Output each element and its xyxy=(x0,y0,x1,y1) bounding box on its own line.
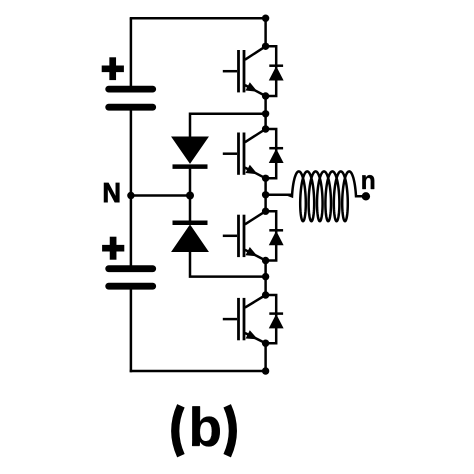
transistor Q3 (IGBT) xyxy=(223,211,266,260)
terminal node n (dot) xyxy=(362,192,370,200)
wire: clamp branch top (to upper midpoint) xyxy=(190,114,266,138)
node n label xyxy=(362,175,374,189)
junction: Q2 emitter xyxy=(262,175,269,182)
wire: bottom rail xyxy=(130,370,266,373)
junction: Q3 emitter xyxy=(262,257,269,264)
diode D1 (freewheel of Q1) xyxy=(266,46,284,96)
junction: top rail / string xyxy=(262,15,269,22)
junction: lower midpoint xyxy=(262,273,269,280)
caption (b) xyxy=(175,406,233,456)
wire: top rail xyxy=(130,17,266,20)
wire: left rail middle segment xyxy=(130,107,133,269)
junction: Q1 emitter xyxy=(262,92,269,99)
plus polarity mark of C1 xyxy=(102,57,124,80)
diode D4 (freewheel of Q4) xyxy=(266,295,284,343)
diode D2 (freewheel of Q2) xyxy=(266,129,284,178)
diode D6 (lower clamp) xyxy=(172,223,208,252)
junction: Q4 collector xyxy=(262,291,269,298)
junction: Q1 collector xyxy=(262,43,269,50)
junction: Q4 emitter xyxy=(262,340,269,347)
plus polarity mark of C2 xyxy=(102,237,124,260)
wire: N to clamp branch xyxy=(131,194,190,197)
wire: string segment bottom xyxy=(264,343,267,371)
junction: upper midpoint xyxy=(262,110,269,117)
wire: left rail lower segment xyxy=(130,286,133,372)
capacitor C1 (upper DC-link) xyxy=(109,89,153,107)
junction: Q2 collector xyxy=(262,125,269,132)
junction: clamp branch at N xyxy=(186,192,194,200)
wire: clamp branch bottom (to lower midpoint) xyxy=(190,251,266,277)
wire: string segment Q3-Q4 xyxy=(264,261,267,296)
wire: string segment Q2-Q3 xyxy=(264,178,267,211)
diode D3 (freewheel of Q3) xyxy=(266,211,284,260)
inductor L (load coil) xyxy=(288,171,366,221)
capacitor C2 (lower DC-link) xyxy=(109,269,153,287)
transistor Q2 (IGBT) xyxy=(223,129,266,178)
transistor Q4 (IGBT) xyxy=(223,295,266,343)
junction: output node xyxy=(262,191,269,198)
transistor Q1 (IGBT) xyxy=(223,46,266,96)
wire: string segment top xyxy=(264,18,267,46)
wire: left rail upper segment xyxy=(130,18,133,89)
wire: clamp branch middle xyxy=(189,167,192,223)
wire: string segment Q1-Q2 xyxy=(264,96,267,129)
junction: bottom rail / string xyxy=(262,367,269,374)
node N label xyxy=(104,183,119,202)
wire: output to inductor xyxy=(266,194,292,197)
junction: Q3 collector xyxy=(262,208,269,215)
junction: N on left rail xyxy=(127,192,134,199)
diode D5 (upper clamp) xyxy=(172,137,208,167)
